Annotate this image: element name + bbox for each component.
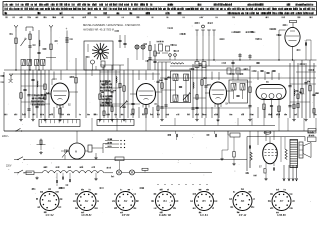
svg-text:UM 80: UM 80 xyxy=(277,213,286,217)
svg-text:ANGABEN NR. 40 LE 7000 M: ANGABEN NR. 40 LE 7000 M xyxy=(82,29,114,32)
svg-text:UABC 80: UABC 80 xyxy=(159,213,171,217)
svg-text:B7: B7 xyxy=(280,199,284,203)
svg-text:220V~: 220V~ xyxy=(2,135,10,138)
svg-text:UY 42: UY 42 xyxy=(239,213,247,217)
svg-text:B5: B5 xyxy=(202,199,206,203)
svg-text:+: + xyxy=(66,27,68,31)
svg-text:BESTELLNUMMERN f. ERSATZTEILE: BESTELLNUMMERN f. ERSATZTEILE - STECKER … xyxy=(83,24,141,27)
svg-text:B2: B2 xyxy=(85,199,89,203)
svg-text:M: M xyxy=(75,151,77,154)
svg-text:B6: B6 xyxy=(241,199,245,203)
svg-text:UC 92: UC 92 xyxy=(46,213,54,217)
svg-text:UL 84: UL 84 xyxy=(200,213,208,217)
svg-text:B1: B1 xyxy=(48,199,52,203)
svg-text:220V: 220V xyxy=(6,166,12,168)
svg-text:UF 89: UF 89 xyxy=(122,213,130,217)
svg-text:UCH 81: UCH 81 xyxy=(81,213,92,217)
svg-text:B4: B4 xyxy=(163,199,167,203)
svg-text:B3: B3 xyxy=(124,199,128,203)
